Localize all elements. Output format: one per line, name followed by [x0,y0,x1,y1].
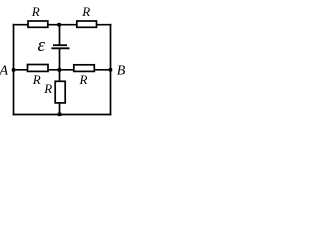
svg-text:R: R [79,72,88,87]
svg-text:R: R [31,4,40,19]
wire bottom [14,114,111,116]
battery short plate [53,44,67,46]
wire top (node between R1 and R2) [14,24,111,26]
node A dot [12,68,15,71]
battery long plate [51,47,69,49]
wire right edge [110,25,112,115]
svg-text:A: A [0,63,9,78]
wire middle A-B [14,69,111,71]
wire center vertical middle [59,49,61,81]
resistor R1 box (top left) [28,21,48,27]
wire left edge [13,25,15,115]
svg-text:B: B [117,64,126,79]
resistor R3 box (middle left) [28,65,49,72]
svg-text:R: R [32,72,41,87]
svg-text:ε: ε [38,35,46,56]
node dot on bottom wire [58,113,62,117]
node B dot [109,68,112,71]
resistor R2 box (top right) [77,21,97,27]
resistor R5 box (vertical) [55,81,65,103]
background [0,0,129,123]
wire center vertical lower [59,103,61,115]
wire center vertical upper [59,25,61,45]
resistor R4 box (middle right) [74,65,95,72]
node dot middle junction [58,68,62,72]
battery EMF source plates [51,45,69,48]
svg-text:R: R [81,4,90,19]
svg-text:R: R [43,81,52,96]
node dot on top wire [57,23,61,27]
